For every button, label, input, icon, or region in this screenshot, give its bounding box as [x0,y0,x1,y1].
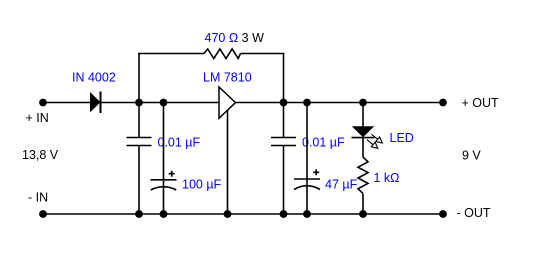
wire C4 branch [306,103,308,215]
wire resistor to bottom rail [362,194,364,215]
svg-text:47 µF: 47 µF [325,178,358,192]
capacitor C4 47 uF top plate [294,178,320,180]
terminal -IN dot [39,210,47,218]
wire 470-ohm branch right horizontal [241,53,285,55]
LED D2 emission arrow 1 [372,134,383,143]
LED D2 cathode bar [352,137,375,139]
LED D2 emission arrow 2 [367,140,378,149]
capacitor C3 0.01 uF plates [271,137,296,139]
svg-text:470 Ω 3 W: 470 Ω 3 W [205,31,265,45]
svg-text:IN 4002: IN 4002 [72,71,116,85]
resistor R1 470 ohm zigzag [204,49,241,59]
wire bottom rail [43,213,443,215]
wire C3 branch lower [283,146,285,215]
wire 470-ohm branch left horizontal [138,53,204,55]
terminal +IN dot [39,99,47,107]
wire U1 ground pin [227,111,229,215]
terminal -OUT dot [439,210,447,218]
regulator U1 LM 7810 triangle [219,87,236,118]
svg-text:- IN: - IN [28,191,48,205]
wire top rail output segment [236,102,444,104]
svg-text:+ IN: + IN [26,111,49,125]
wire LED to resistor [362,138,364,157]
capacitor C4 curved plate [294,186,320,190]
capacitor C4 plus sign [313,169,319,175]
svg-text:13,8 V: 13,8 V [22,148,59,162]
LED D2 triangle [353,127,373,137]
wire 470-ohm branch left vertical [138,54,140,103]
resistor R2 1 kOhm zigzag [358,157,368,194]
svg-text:LED: LED [390,131,414,145]
wire C1 branch lower [138,146,140,215]
wire C2 branch [163,103,165,215]
svg-text:100 µF: 100 µF [182,178,222,192]
capacitor C2 plus sign [169,171,175,177]
wire LED branch upper [362,103,364,128]
capacitor C2 curved plate [151,187,176,190]
diode D1 cathode bar [100,92,102,114]
svg-text:+ OUT: + OUT [462,96,500,110]
terminal +OUT dot [439,99,447,107]
diode D1 1N4002 triangle [90,92,101,112]
svg-text:LM 7810: LM 7810 [203,71,252,85]
capacitor C2 100 uF top plate [151,179,177,181]
svg-text:0.01 µF: 0.01 µF [302,136,345,150]
wire C3 branch upper [283,103,285,138]
wire 470-ohm branch right vertical [283,54,285,103]
capacitor C1 0.01 uF plates [127,137,152,139]
node junction dots top rail [135,99,143,107]
svg-text:1 kΩ: 1 kΩ [374,171,400,185]
wire C1 branch upper [138,103,140,138]
wire top rail input segment [43,102,219,104]
svg-text:- OUT: - OUT [457,206,491,220]
svg-text:9 V: 9 V [462,149,481,163]
node junction dots bottom rail [135,210,143,218]
